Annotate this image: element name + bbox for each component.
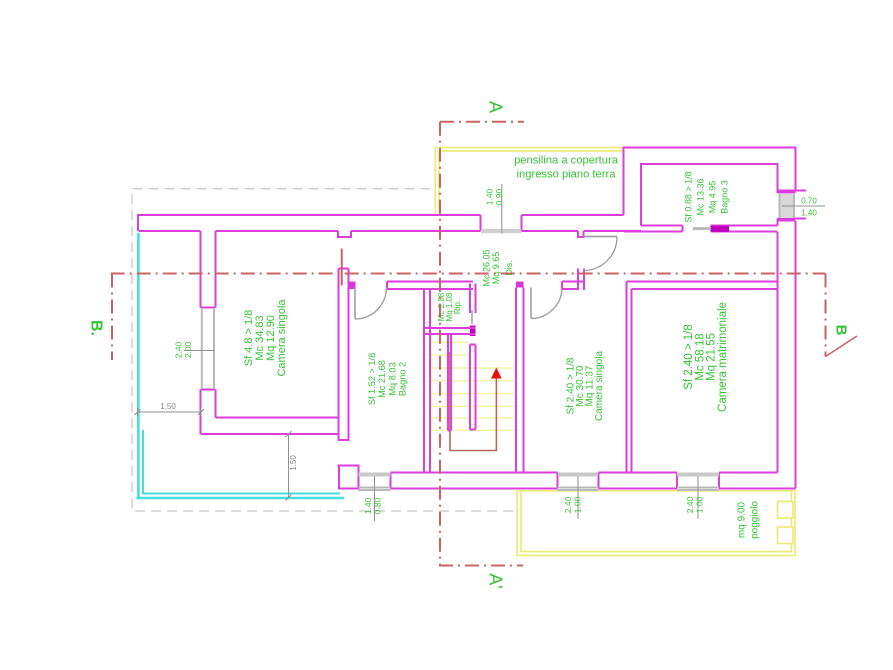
entrance dim line xyxy=(501,184,503,234)
camera singola middle door arc xyxy=(531,288,562,319)
camera singola middle left wall pair xyxy=(516,288,524,473)
bottom wall band outer xyxy=(391,488,796,490)
dim 1.50 vertical xyxy=(288,434,290,498)
top wall notch pier 2 xyxy=(578,231,584,237)
left window dim line xyxy=(184,350,215,352)
svg-text:1.50: 1.50 xyxy=(160,402,176,411)
dashed property outline xyxy=(132,189,518,511)
svg-text:1.400.80: 1.400.80 xyxy=(363,497,383,514)
bagno3 window dim line xyxy=(782,205,825,207)
stair direction arrow xyxy=(491,368,502,379)
section line A vertical xyxy=(439,122,524,566)
top wall notch pier 1 xyxy=(338,231,351,237)
main top wall band outer xyxy=(138,215,624,231)
main top wall band inner xyxy=(139,230,641,232)
cap block xyxy=(516,282,524,288)
rip door xyxy=(471,310,473,324)
svg-text:ingresso piano terra: ingresso piano terra xyxy=(517,169,617,181)
camera matrimoniale door pier xyxy=(578,269,584,291)
bagno2 left wall pair xyxy=(339,269,349,441)
svg-text:A': A' xyxy=(486,573,506,588)
bottom wall band inner xyxy=(391,472,778,474)
camera singola left wall pair with window xyxy=(201,231,216,434)
bagno3 block outer wall xyxy=(624,148,796,489)
svg-text:0.70: 0.70 xyxy=(801,197,817,206)
section tick at wall xyxy=(341,249,343,286)
rip wall junction block xyxy=(470,326,476,337)
left window glazing xyxy=(202,308,214,389)
svg-text:1.40: 1.40 xyxy=(801,209,817,218)
window 3 camera matrimoniale xyxy=(677,473,719,477)
svg-text:1.400.90: 1.400.90 xyxy=(485,188,505,205)
wall pair between middle and matrimoniale xyxy=(627,282,632,473)
svg-text:B.: B. xyxy=(88,320,105,336)
svg-text:2.402.00: 2.402.00 xyxy=(174,341,194,358)
rooms band middle segment xyxy=(562,282,584,290)
cyan terrace outline below xyxy=(137,233,345,498)
svg-text:B: B xyxy=(833,325,850,336)
bagno3 inner wall xyxy=(641,164,778,226)
section B arrow diagonal xyxy=(826,336,858,357)
yellow poggiolo balcony xyxy=(517,491,795,556)
bagno3 window hatch fill xyxy=(779,194,795,218)
bagno2 door arc xyxy=(355,288,387,320)
rooms band right segment (camera matrimoniale top wall) xyxy=(627,282,778,290)
section line B horizontal xyxy=(111,274,826,361)
svg-text:A: A xyxy=(486,101,506,113)
bagno2 door leaf xyxy=(354,288,356,320)
svg-text:2.401.00: 2.401.00 xyxy=(685,496,705,513)
window 2 camera singola middle xyxy=(558,473,598,477)
yellow stair treads xyxy=(431,343,514,431)
bagno3 door leaf dark xyxy=(711,226,729,232)
bagno3 window glazing xyxy=(780,194,795,218)
camera matrimoniale door arc xyxy=(584,237,618,271)
camera matrimoniale door leaf xyxy=(584,236,618,238)
band below rip xyxy=(424,328,476,334)
stair left wall pair xyxy=(424,289,430,472)
camera singola middle door leaf xyxy=(530,288,532,319)
window 1 bagno2 xyxy=(359,473,391,477)
rip right wall xyxy=(470,284,476,430)
stair stringer wall xyxy=(448,335,451,431)
dim 1.50 horizontal xyxy=(138,411,202,413)
entrance opening jambs xyxy=(481,215,522,231)
rooms band segment over bagno2 and rip xyxy=(387,282,473,290)
svg-text:2.401.00: 2.401.00 xyxy=(563,496,583,513)
svg-text:1.50: 1.50 xyxy=(289,455,298,471)
bagno2 door jamb block xyxy=(350,282,356,290)
stair route line xyxy=(450,352,496,451)
entrance threshold hatch xyxy=(481,229,521,233)
bottom band jambs xyxy=(391,473,720,489)
dim oblique ticks xyxy=(135,409,292,501)
yellow pensilina canopy xyxy=(435,148,623,214)
camera singola bottom wall band xyxy=(201,418,350,441)
bagno3 bottom wall xyxy=(624,226,778,232)
bagno3 window header and sill xyxy=(778,191,807,221)
bagno3 door threshold gray xyxy=(693,227,711,230)
bottom-left pier xyxy=(338,466,359,489)
right outer wall inner line xyxy=(777,232,779,473)
svg-text:pensilina a copertura: pensilina a copertura xyxy=(514,155,619,167)
